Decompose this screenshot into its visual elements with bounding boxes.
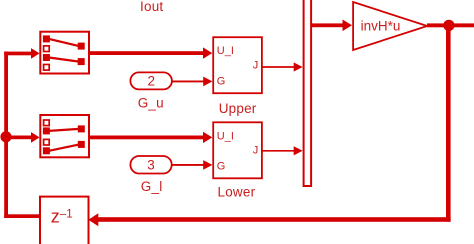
svg-text:G: G [217, 160, 226, 172]
svg-text:2: 2 [147, 74, 155, 89]
svg-text:G: G [217, 75, 226, 87]
svg-text:Iout: Iout [140, 0, 163, 14]
svg-text:invH*u: invH*u [361, 19, 401, 34]
svg-text:J: J [253, 145, 259, 157]
svg-text:–1: –1 [60, 209, 73, 221]
svg-text:Lower: Lower [218, 185, 256, 200]
svg-text:z: z [51, 207, 60, 227]
svg-text:Upper: Upper [219, 101, 257, 116]
svg-text:G_l: G_l [141, 179, 163, 194]
svg-text:3: 3 [147, 158, 155, 173]
svg-text:G_u: G_u [138, 96, 164, 111]
svg-text:J: J [253, 60, 259, 72]
svg-text:U_I: U_I [217, 45, 234, 57]
svg-text:U_I: U_I [217, 130, 234, 142]
